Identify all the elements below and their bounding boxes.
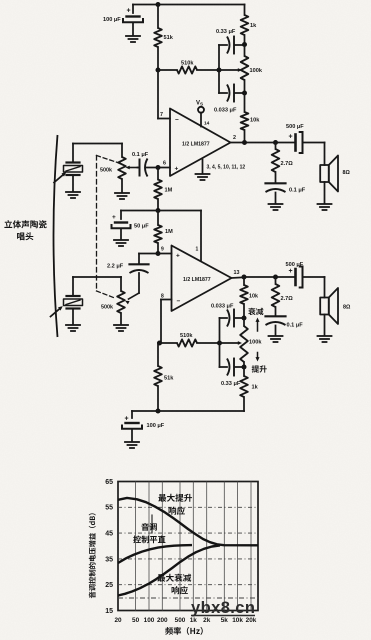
resistor 51k channel1 <box>157 5 159 29</box>
chart horizontal gridlines <box>118 506 258 508</box>
capacitor 0.1uF zobel ch1 <box>266 182 286 184</box>
wire output ch2 <box>232 276 245 279</box>
resistor 2.7 ohm ch2 <box>275 277 277 284</box>
node tone wiper ch2 <box>217 341 222 346</box>
arrow on cartridge ch1 <box>54 174 64 183</box>
ground cartridge ch1 <box>72 176 74 192</box>
node zobel ch1 <box>273 140 278 145</box>
capacitor 0.033uF ch1 <box>219 92 227 94</box>
curve tone controls flat <box>118 545 192 563</box>
node pot bottom ch2 <box>242 365 247 370</box>
wire to pin 9 <box>158 253 172 255</box>
capacitor 100uF bottom supply <box>131 411 133 418</box>
gang dashed link pots <box>97 156 120 164</box>
resistor 1M lower <box>157 211 159 226</box>
capacitor 0.1uF input ch1 <box>138 167 140 169</box>
capacitor 0.1uF zobel ch2 <box>266 315 286 317</box>
wiper arrow pot ch2 <box>129 293 140 299</box>
cartridge crystal pickup ch1 <box>72 144 74 162</box>
resistor 10k channel1 <box>244 93 246 112</box>
capacitor 0.33uF ch2 <box>220 366 228 368</box>
label maximum boost response <box>158 494 192 502</box>
resistor 510k channel2 <box>160 342 178 344</box>
wiper arrow pot ch1 <box>129 167 138 169</box>
terminal Vs <box>198 107 204 113</box>
wire inverting input pin7 ch1 <box>157 70 159 119</box>
node bottom rail junction <box>156 409 161 414</box>
ground pot ch2 <box>120 313 122 324</box>
wire top supply rail <box>133 4 245 6</box>
brace stereo cartridge group <box>54 135 58 337</box>
label tone control flat <box>141 523 156 531</box>
cartridge crystal pickup ch2 <box>72 277 74 295</box>
wire bias pin1 U1b <box>158 210 201 212</box>
ground pins 3 4 5 10 11 12 of U1 <box>202 160 204 174</box>
resistor 1k channel1 <box>244 5 246 16</box>
node output ch1 <box>242 140 247 145</box>
wire inverting input feedback ch2 <box>161 299 172 301</box>
node tone wiper ch1 <box>217 68 222 73</box>
potentiometer 500k ch1 <box>118 157 126 179</box>
speaker ch2 8 ohm <box>324 277 326 298</box>
resistor 1k channel2 <box>243 367 245 376</box>
wire cartridge2 to pot2 <box>73 276 121 278</box>
speaker ch1 8 ohm <box>324 143 326 166</box>
capacitor 2.2uF input ch2 <box>130 263 149 265</box>
potentiometer 500k ch2 <box>117 291 125 313</box>
ground cartridge ch2 <box>72 309 74 324</box>
node noninverting input ch1 <box>156 165 161 170</box>
curve maximum boost response <box>118 498 258 545</box>
label maximum cut response <box>157 574 191 582</box>
wire bottom supply rail <box>132 410 244 412</box>
node pot top ch1 <box>242 42 247 47</box>
capacitor 50uF bias <box>120 211 122 220</box>
node output ch2 <box>242 275 247 280</box>
chart vertical gridlines <box>135 482 137 611</box>
node bias midpoint <box>156 208 161 213</box>
arrow attenuate up <box>257 322 259 332</box>
label attenuate <box>248 308 263 315</box>
label boost <box>252 365 267 372</box>
wire wiper arrow into 100k pot ch1 <box>219 69 239 71</box>
node feedback ch2 <box>157 341 162 346</box>
ground below 100uF bottom <box>125 441 139 443</box>
wire tone cap bracket ch1 <box>218 45 220 93</box>
ground speaker ch1 <box>324 182 326 203</box>
node feedback ch1 <box>156 68 161 73</box>
curve maximum cut response <box>118 545 220 595</box>
op-amp U1a 1/2 LM1877 <box>170 109 231 177</box>
ground pot ch1 <box>121 179 123 192</box>
wire output ch1 <box>231 142 296 144</box>
chart frequency response axes box <box>118 482 258 611</box>
chart x-axis title frequency Hz <box>165 627 203 635</box>
arrow boost down <box>257 353 259 358</box>
label tone control flat leader <box>151 515 153 533</box>
wire wiper arrow into 100k pot ch2 <box>220 342 239 344</box>
wire tone cap bracket ch2 <box>219 318 221 367</box>
op-amp U1b 1/2 LM1877 <box>172 246 232 312</box>
wire cartridge to pot ch1 <box>73 143 122 145</box>
capacitor 100uF top supply bypass <box>132 5 134 14</box>
ground zobel ch1 <box>269 203 283 205</box>
node pot top ch2 <box>242 316 247 321</box>
resistor 1M upper <box>157 168 159 180</box>
node pot bottom ch1 <box>242 91 247 96</box>
ground below 100uF top <box>126 35 140 37</box>
capacitor 0.033uF ch2 <box>220 317 228 319</box>
chart y-axis title voltage gain dB <box>89 513 96 598</box>
scan noise overlay <box>0 0 1 1</box>
potentiometer 100k ch1 <box>241 56 249 80</box>
pin 14 lead to Vs <box>200 113 202 127</box>
arrow on cartridge ch2 <box>51 308 61 317</box>
node zobel ch2 <box>273 275 278 280</box>
capacitor 0.33uF ch1 <box>219 44 227 46</box>
resistor 2.7 ohm ch1 <box>275 143 277 150</box>
ground zobel ch2 <box>269 335 283 337</box>
ground speaker ch2 <box>324 315 326 336</box>
resistor 51k channel2 <box>157 343 159 366</box>
ground 50uF <box>114 239 128 241</box>
node top rail junction <box>156 2 161 7</box>
resistor 10k channel2 <box>243 277 245 285</box>
resistor 510k channel1 <box>158 69 177 71</box>
node noninverting input ch2 <box>156 251 161 256</box>
wire bias to 50uF <box>121 210 158 212</box>
potentiometer 100k ch2 <box>243 318 245 326</box>
wire input coupling ch2 <box>139 253 158 255</box>
label stereo ceramic cartridge <box>4 220 46 228</box>
